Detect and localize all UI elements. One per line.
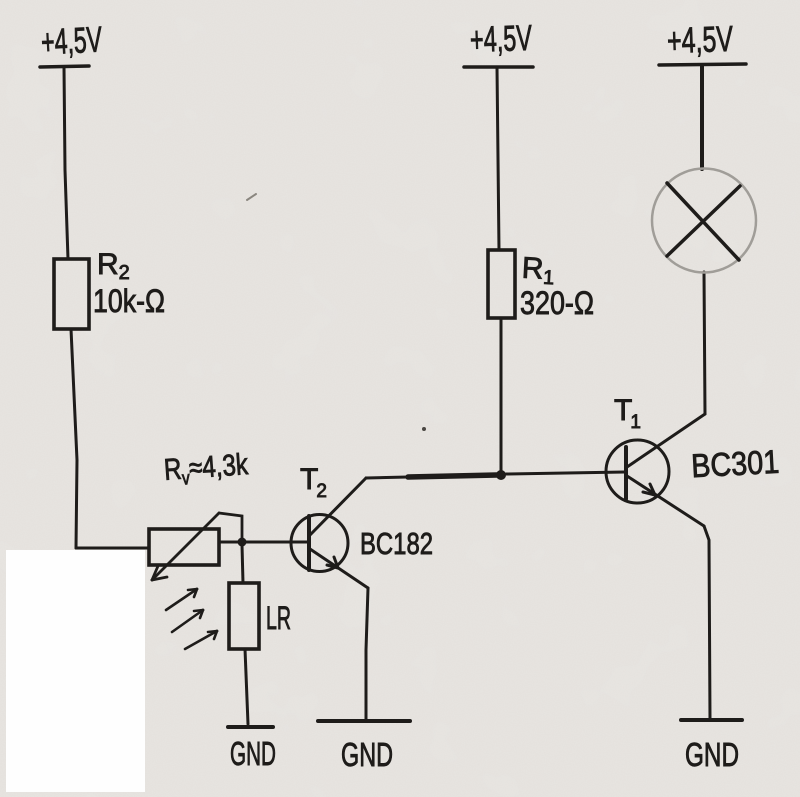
wire LR to ground bbox=[245, 649, 248, 724]
supply rail 2 (+4,5V middle) bbox=[464, 65, 533, 69]
wire rail3 to lamp bbox=[700, 65, 704, 169]
white patch rectangle bbox=[6, 550, 145, 792]
svg-text:GND: GND bbox=[341, 736, 393, 773]
light arrow 3 bbox=[185, 631, 217, 649]
potentiometer Rv body bbox=[149, 529, 219, 565]
svg-text:BC301: BC301 bbox=[690, 443, 780, 485]
svg-text:+4,5V: +4,5V bbox=[40, 18, 103, 62]
svg-text:10k-Ω: 10k-Ω bbox=[93, 283, 165, 319]
transistor T2 circle bbox=[291, 515, 348, 572]
wire: rail1 to R2 bbox=[64, 67, 68, 259]
light arrow 1 bbox=[166, 589, 197, 610]
lamp X stroke 2 bbox=[667, 186, 740, 256]
transistor T1 circle bbox=[606, 440, 669, 503]
node A junction dot bbox=[238, 538, 247, 547]
svg-text:LR: LR bbox=[266, 600, 291, 636]
svg-text:GND: GND bbox=[685, 736, 739, 773]
stray ink dot bbox=[422, 427, 426, 431]
wire node A down to LR bbox=[242, 545, 243, 583]
svg-text:BC182: BC182 bbox=[360, 526, 433, 561]
resistor R2 bbox=[54, 259, 89, 329]
transistor T1 collector bbox=[627, 414, 705, 467]
wire: R2 to horizontal run bbox=[71, 329, 77, 548]
faint pencil dash bbox=[247, 194, 256, 200]
supply rail 3 (+4,5V right) bbox=[659, 64, 746, 65]
wire T2 collector horizontal thin bbox=[366, 477, 408, 478]
wire: horizontal to Rv bbox=[76, 547, 149, 550]
ground (T2) bbox=[318, 719, 410, 723]
wiper wire to node A bbox=[219, 513, 242, 540]
wire T2 collector horizontal thick bbox=[408, 475, 497, 477]
light arrow 2 bbox=[172, 610, 203, 632]
transistor T1 base bar bbox=[624, 447, 628, 499]
svg-text:+4,5V: +4,5V bbox=[469, 17, 532, 60]
wire node A to T2 base bbox=[242, 541, 308, 544]
svg-text:320-Ω: 320-Ω bbox=[520, 285, 594, 321]
lamp circle bbox=[652, 169, 756, 273]
resistor R1 bbox=[488, 250, 515, 318]
transistor T2 collector bbox=[310, 478, 366, 535]
ground (LR) bbox=[228, 725, 273, 729]
supply rail 1 (+4,5V top-left) bbox=[40, 66, 89, 67]
transistor T2 emitter with arrow bbox=[310, 549, 368, 588]
LDR LR body bbox=[229, 583, 259, 649]
potentiometer arrow bbox=[152, 513, 219, 580]
wire T2 emitter to ground bbox=[366, 588, 368, 719]
wire T1 emitter to ground bbox=[704, 526, 710, 719]
wire rail2 to R1 bbox=[497, 67, 499, 250]
ground (T1) bbox=[681, 718, 742, 722]
svg-text:GND: GND bbox=[230, 735, 276, 772]
transistor T1 emitter with arrow bbox=[627, 476, 704, 526]
lamp X stroke 1 bbox=[667, 183, 739, 260]
node B junction dot bbox=[496, 470, 506, 480]
wire R1 to node B bbox=[500, 318, 503, 470]
wire node B to T1 base bbox=[506, 472, 625, 474]
wire T1 collector up to lamp bbox=[704, 272, 705, 414]
wire Rv to node A bbox=[219, 541, 242, 544]
svg-text:+4,5V: +4,5V bbox=[666, 18, 733, 61]
transistor T2 base bar bbox=[307, 516, 311, 570]
